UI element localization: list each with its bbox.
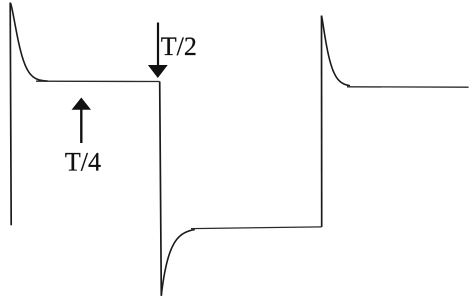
- svg-text:T/2: T/2: [161, 32, 197, 61]
- svg-text:T/4: T/4: [65, 147, 101, 176]
